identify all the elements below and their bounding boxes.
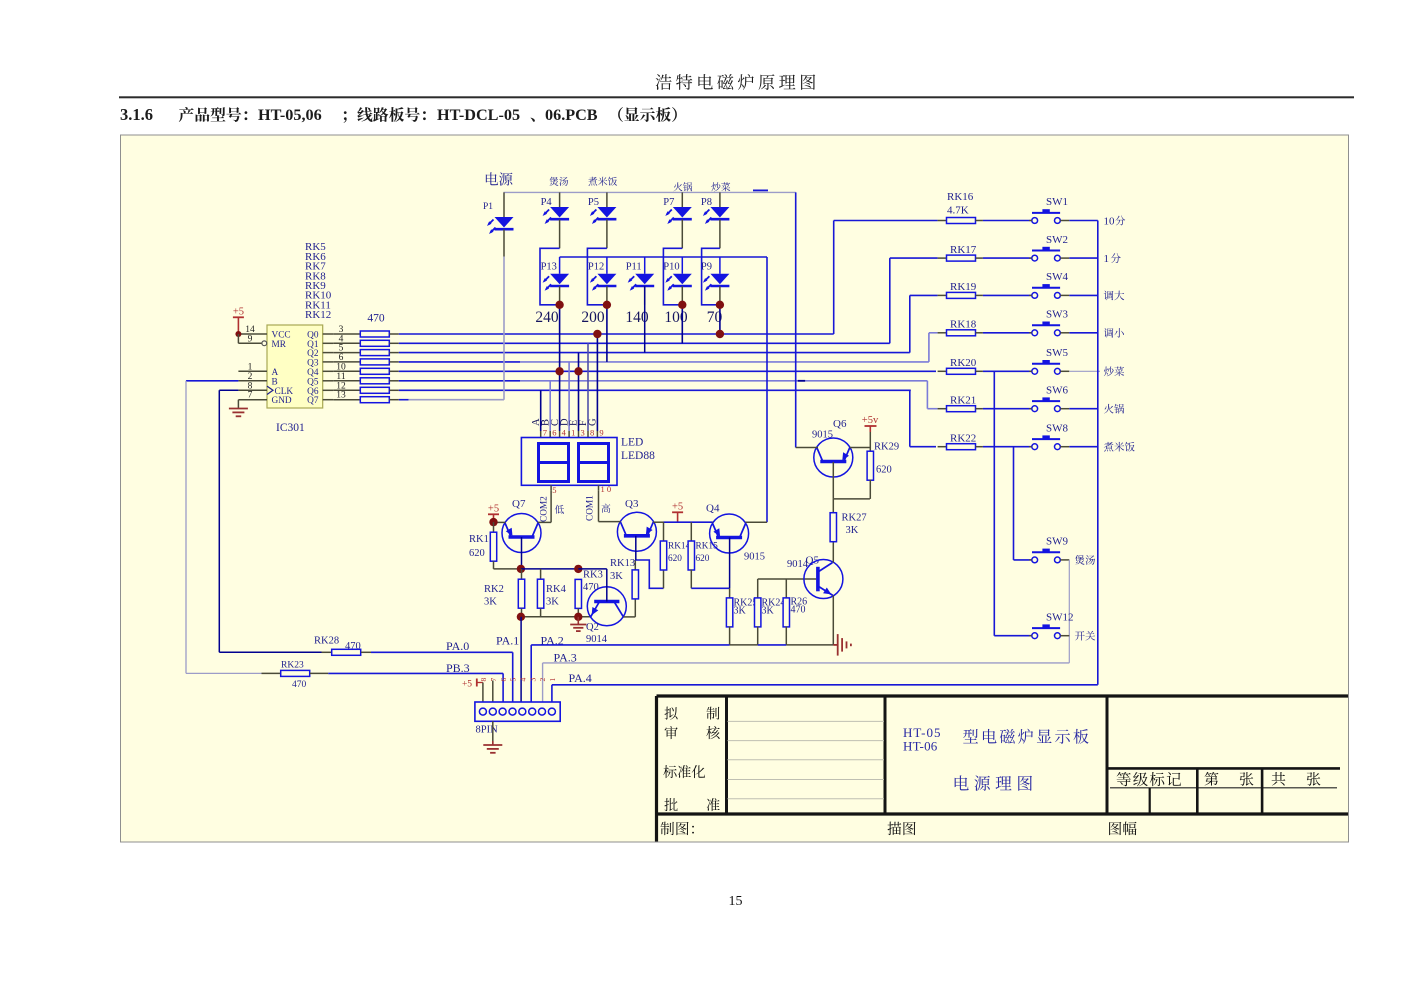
svg-text:RK14: RK14 <box>668 542 691 552</box>
svg-text:10: 10 <box>1104 215 1116 227</box>
wire COM2 <box>550 491 552 523</box>
junction row Q0 x P9 <box>716 330 724 338</box>
svg-text:SW9: SW9 <box>1046 536 1069 548</box>
wire PA.1 column <box>520 617 522 702</box>
junction P9 node 70 <box>716 301 724 309</box>
svg-text:RK18: RK18 <box>950 319 977 331</box>
wire RK13 to RK14 s-path <box>635 560 663 588</box>
svg-text:6: 6 <box>499 678 508 682</box>
wire RK17 to SW2 <box>983 257 1032 259</box>
svg-text:RK1: RK1 <box>469 534 489 545</box>
svg-text:4: 4 <box>519 678 528 682</box>
svg-text:P12: P12 <box>588 262 604 273</box>
ground at connector <box>492 721 494 745</box>
display U LED88 body <box>521 438 617 486</box>
junction PA1 bottom node <box>517 613 525 621</box>
junction RK3 bottom node <box>574 613 582 621</box>
wire segment E drop <box>578 353 580 431</box>
svg-text:2: 2 <box>538 678 547 682</box>
wire SW2 to rail <box>1069 257 1098 259</box>
title block label 制图 <box>660 822 693 835</box>
svg-text:1: 1 <box>248 362 253 372</box>
wire Q2 base <box>606 569 608 602</box>
svg-text:P11: P11 <box>626 262 642 273</box>
svg-text:P7: P7 <box>663 197 674 208</box>
title block divider sign/title <box>884 696 887 814</box>
title block label 等级标记 <box>1117 772 1181 786</box>
title block 型电磁炉显示板 <box>963 729 1089 744</box>
junction +5 Q7 node <box>489 518 497 526</box>
title block label 拟制 <box>664 707 677 720</box>
net label 电源 <box>486 172 513 185</box>
title block subtable divider 3 <box>1149 788 1151 814</box>
svg-text:1: 1 <box>548 678 557 682</box>
connector pin stubs <box>482 683 484 703</box>
svg-text:15: 15 <box>729 894 743 909</box>
wire segment C drop <box>559 371 561 431</box>
svg-text:1: 1 <box>1104 253 1110 265</box>
wire bus row Q1 <box>399 342 890 344</box>
svg-text:A: A <box>272 368 279 378</box>
title block subtable underline <box>1110 787 1337 789</box>
title block label 批准 <box>664 798 677 811</box>
IC301 left pins VCC MR A B CLK GND <box>238 333 267 335</box>
svg-text:RK16: RK16 <box>947 191 974 203</box>
wire Q5 riser to RK21 <box>926 381 928 409</box>
svg-text:620: 620 <box>668 554 682 564</box>
svg-text:5: 5 <box>552 485 556 495</box>
svg-text:3: 3 <box>528 678 537 682</box>
wire Q1 riser to RK17 <box>889 258 891 343</box>
svg-text:P1: P1 <box>483 202 493 212</box>
wire VCC to MR vertical <box>237 334 239 343</box>
svg-text:RK21: RK21 <box>950 394 976 406</box>
svg-text:GND: GND <box>272 396 292 406</box>
svg-text:Q4: Q4 <box>706 503 720 515</box>
svg-text:PB.3: PB.3 <box>446 661 470 675</box>
wire bypass at x=559 <box>540 248 560 304</box>
svg-text:RK27: RK27 <box>842 513 867 524</box>
wire Q4 emitter from rail <box>712 521 715 523</box>
svg-text:SW8: SW8 <box>1046 422 1069 434</box>
ground at IC301 GND pin <box>237 400 239 409</box>
svg-text:+5: +5 <box>233 307 244 318</box>
wire bus row Q6 <box>399 389 911 391</box>
transistor Q2 <box>587 587 626 626</box>
title block label 标准化 <box>663 765 705 778</box>
wire SW8 tee down to SW9 <box>1013 447 1015 560</box>
wire PA.3 row <box>543 662 1070 664</box>
wire +5 mid stem <box>677 512 679 522</box>
wire SW4 to rail <box>1069 294 1098 296</box>
svg-text:3: 3 <box>581 428 585 438</box>
junction P13 node 240 <box>555 301 563 309</box>
LED P4 <box>549 177 568 186</box>
schematic sheet background <box>121 135 1349 842</box>
wire bus row Q7 pale to P1 <box>409 399 504 401</box>
LED P8 <box>711 182 730 191</box>
resistor array element row 8 <box>333 399 360 401</box>
wire bus row Q3 <box>399 361 520 363</box>
svg-text:Q7: Q7 <box>307 396 319 406</box>
net label 调小 <box>1104 328 1124 338</box>
document title 浩特电磁炉原理图 <box>656 74 816 90</box>
wire RK22 to SW8 <box>983 446 1032 448</box>
svg-text:HT-05,06: HT-05,06 <box>258 106 322 124</box>
title block label 图幅 <box>1109 822 1136 835</box>
svg-text:8: 8 <box>590 428 594 438</box>
svg-text:HT-06: HT-06 <box>903 739 938 754</box>
svg-text:+5: +5 <box>672 502 683 513</box>
svg-text:PA.1: PA.1 <box>496 634 519 648</box>
svg-text:COM1: COM1 <box>586 495 596 521</box>
wire Q4 collector to riser <box>746 521 768 523</box>
display pin 10 stub <box>598 485 600 490</box>
svg-text:LED: LED <box>621 437 643 449</box>
net label COM2 <box>549 521 551 523</box>
wire RK20 to SW5 <box>983 370 1032 372</box>
display pin 5 stub <box>550 485 552 490</box>
wire Q2 collector <box>623 616 635 618</box>
wire bus row Q0 <box>399 333 834 335</box>
svg-text:PA.4: PA.4 <box>569 671 592 685</box>
wire bus row Q4 <box>399 370 936 372</box>
svg-text:P13: P13 <box>541 262 557 273</box>
svg-text:3K: 3K <box>546 597 559 608</box>
title block outer bottom <box>657 812 1349 815</box>
svg-text:SW12: SW12 <box>1046 611 1074 623</box>
svg-text:RK22: RK22 <box>950 432 976 444</box>
title block outer top <box>657 694 1349 697</box>
wire SW8 to rail <box>1069 446 1098 448</box>
title block subtable divider 2 <box>1261 768 1264 814</box>
wire RK16 to SW1 <box>983 220 1032 222</box>
svg-text:RK4: RK4 <box>546 584 567 595</box>
svg-text:SW2: SW2 <box>1046 234 1068 246</box>
svg-text:+5: +5 <box>488 504 499 515</box>
svg-text:SW1: SW1 <box>1046 196 1068 208</box>
title block subtable divider 1 <box>1196 768 1199 814</box>
wire rail riser to Q6 base <box>795 192 797 447</box>
IC301 MR inversion bubble <box>262 341 267 346</box>
wire Q6 riser to RK22 <box>909 390 911 446</box>
svg-text:2: 2 <box>248 372 253 382</box>
wire SW9 pale drop <box>1068 560 1070 663</box>
resistor array element row 4 <box>333 361 360 363</box>
wire P9 column to bus <box>719 305 721 334</box>
svg-text:3K: 3K <box>484 597 497 608</box>
svg-text:240: 240 <box>535 309 559 326</box>
svg-text:RK3: RK3 <box>583 570 603 581</box>
svg-text:7: 7 <box>248 391 253 401</box>
wire Q6 emitter to +5v <box>850 447 870 449</box>
svg-text:IC301: IC301 <box>276 422 305 434</box>
wire LED anode rail second row <box>560 256 767 258</box>
svg-text:06.PCB: 06.PCB <box>545 106 598 124</box>
wire RK3top to Q2 base <box>578 568 607 570</box>
svg-text:9: 9 <box>248 334 253 344</box>
wire P11 column to bus <box>644 286 646 352</box>
wire Q5 emitter down <box>832 595 834 645</box>
junction P10 node 100 <box>678 301 686 309</box>
svg-text:G: G <box>588 418 599 426</box>
wire Q6 collector <box>832 462 834 499</box>
wire P12 column to bus <box>606 305 608 362</box>
svg-text:Q4: Q4 <box>307 368 319 378</box>
wire segment G drop <box>596 334 598 431</box>
resistor array element row 5 <box>333 370 360 372</box>
svg-text:3K: 3K <box>610 571 623 582</box>
connector pins circles <box>479 708 486 715</box>
wire Q3 riser to RK18 <box>928 333 930 362</box>
svg-text:470: 470 <box>583 582 599 593</box>
junction row Q0 G <box>593 330 601 338</box>
net label 煮米饭 <box>1104 442 1135 452</box>
wire RK21 to SW6 <box>983 408 1032 410</box>
net label 开关 <box>1075 631 1095 641</box>
svg-text:RK29: RK29 <box>874 442 899 453</box>
IC301 CLK wedge <box>267 386 273 394</box>
svg-text:7: 7 <box>543 428 547 438</box>
svg-text:PA.0: PA.0 <box>446 639 469 653</box>
wire bypass at x=719 <box>702 248 720 304</box>
wire RK23 to pin3 <box>328 672 503 674</box>
resistor array element row 2 <box>333 342 360 344</box>
svg-text:RK23: RK23 <box>281 661 304 671</box>
svg-text:LED88: LED88 <box>621 450 655 462</box>
title block label 共张 <box>1272 772 1286 786</box>
title block left edge <box>655 696 658 842</box>
wire blue dash above rail <box>753 189 768 191</box>
svg-text:Q3: Q3 <box>625 498 639 510</box>
svg-text:Q7: Q7 <box>512 498 526 510</box>
wire +5 stem to VCC <box>237 317 239 334</box>
resistor array element row 7 <box>333 389 360 391</box>
wire RK19 to SW4 <box>983 294 1032 296</box>
svg-text:RK19: RK19 <box>950 281 977 293</box>
wire bottom tie row <box>521 616 591 618</box>
wire PA.2 row <box>531 644 729 646</box>
svg-text:P5: P5 <box>588 197 599 208</box>
junction VCC node <box>235 331 241 337</box>
junction P12 node 200 <box>603 301 611 309</box>
svg-text:SW5: SW5 <box>1046 347 1069 359</box>
wire RK1 to Q7 base <box>494 568 521 570</box>
svg-text:3K: 3K <box>762 606 775 617</box>
svg-text:COM2: COM2 <box>540 496 550 522</box>
svg-text:RK20: RK20 <box>950 357 977 369</box>
resistor array element row 6 <box>333 380 360 382</box>
svg-text:Q2: Q2 <box>586 622 599 633</box>
title block signature rules <box>728 720 885 722</box>
title block label 描图 <box>888 822 916 836</box>
svg-text:8PIN: 8PIN <box>476 725 499 736</box>
junction row Q4 C <box>555 367 563 375</box>
wire Q0 riser to RK16 <box>833 221 835 335</box>
wire segment B drop <box>549 381 551 431</box>
wire RK28 to pin4 <box>371 651 513 653</box>
wire SW3 to rail <box>1069 332 1098 334</box>
LED P7 <box>673 182 692 191</box>
title block 电源理图 <box>955 775 1032 790</box>
wire COM1 <box>598 491 600 522</box>
wire Q6 base <box>796 447 818 449</box>
connector J 8PIN body <box>475 702 560 721</box>
wire Q3 emitter to +5 rail <box>653 521 663 523</box>
wire PA.4 row <box>552 684 1098 686</box>
wire Q3 base down <box>635 536 637 560</box>
wire bypass at x=682 <box>663 248 682 304</box>
title block label 第张 <box>1205 772 1219 786</box>
svg-text:620: 620 <box>876 465 892 476</box>
wire P10 column to bus <box>681 305 683 344</box>
wire segment F drop <box>587 343 589 431</box>
wire Q7 base down <box>521 537 523 569</box>
svg-text:470: 470 <box>791 605 806 616</box>
net label 调大 <box>1104 291 1124 301</box>
IC U IC301 body <box>267 325 323 408</box>
wire IC CLK to PA0 <box>219 389 238 391</box>
svg-text:B: B <box>272 377 278 387</box>
wire Q2 riser to RK19 <box>909 295 911 352</box>
svg-text:9014: 9014 <box>586 634 608 645</box>
wire Q3 collector to COM1 <box>618 521 621 523</box>
svg-text:3K: 3K <box>734 606 747 617</box>
svg-text:RK28: RK28 <box>314 636 339 647</box>
svg-text:3K: 3K <box>846 525 859 536</box>
resistor array element row 3 <box>333 352 360 354</box>
svg-text:5: 5 <box>509 678 518 682</box>
svg-text:P9: P9 <box>701 262 712 273</box>
svg-text:9015: 9015 <box>744 552 765 563</box>
wire bus row Q5 <box>399 380 520 382</box>
junction RK3 top node <box>574 565 582 573</box>
svg-text:Q5: Q5 <box>307 377 319 387</box>
svg-text:+5v: +5v <box>862 415 879 426</box>
svg-text:P4: P4 <box>541 197 553 208</box>
wire SW6 to rail <box>1069 408 1098 410</box>
svg-text:3.1.6: 3.1.6 <box>120 105 153 124</box>
svg-text:SW3: SW3 <box>1046 309 1069 321</box>
wire Q5 collector <box>832 541 834 563</box>
svg-text:4.7K: 4.7K <box>947 205 969 217</box>
net label 火锅 <box>1104 404 1124 414</box>
svg-text:SW6: SW6 <box>1046 384 1069 396</box>
title underline <box>119 96 1354 98</box>
wire IC B pin to PB3 <box>186 380 238 382</box>
svg-text:470: 470 <box>367 313 385 325</box>
wire RK18 to SW3 <box>983 332 1032 334</box>
wire Q7 collector to COM2 <box>538 521 539 523</box>
svg-text:9: 9 <box>599 428 603 438</box>
svg-text:RK2: RK2 <box>484 584 504 595</box>
svg-text:MR: MR <box>272 340 287 350</box>
svg-text:P8: P8 <box>701 197 712 208</box>
wire P13 column to bus <box>559 305 561 372</box>
svg-text:P10: P10 <box>663 262 679 273</box>
wire segment D drop <box>568 362 570 431</box>
svg-text:470: 470 <box>292 680 307 690</box>
resistor array element row 1 <box>333 333 360 335</box>
wire bus row Q2 <box>399 352 910 354</box>
junction row Q4 E <box>574 367 582 375</box>
svg-text:RK13: RK13 <box>610 558 635 569</box>
ground at RK3 bottom <box>577 617 579 625</box>
ground at Q5 emitter <box>833 644 837 646</box>
wire SW5 pale <box>1069 370 1100 372</box>
wire Q5 base row <box>758 578 817 580</box>
svg-text:RK17: RK17 <box>950 244 977 256</box>
wire +5 rail <box>664 521 713 523</box>
wire +5 to Q7 emitter <box>493 514 495 522</box>
LED P5 <box>588 177 617 186</box>
net label 炒菜 <box>1104 366 1124 376</box>
svg-text:100: 100 <box>664 309 688 326</box>
wire PB3 row <box>186 672 262 674</box>
title block divider labels/sign <box>725 696 728 814</box>
title block label 审核 <box>665 726 678 739</box>
svg-text:6: 6 <box>552 428 556 438</box>
display digit 1 <box>539 444 569 482</box>
wire Q4 base down <box>729 538 731 589</box>
svg-text:620: 620 <box>696 554 710 564</box>
wire SW1 to rail <box>1069 220 1098 222</box>
wire segment A drop <box>540 390 542 431</box>
wire right rail <box>1097 221 1099 685</box>
svg-text:RK12: RK12 <box>305 309 331 321</box>
wire Q7 emitter <box>494 521 506 523</box>
wire row Q5 dash <box>798 380 805 382</box>
svg-text:1 0: 1 0 <box>601 484 612 494</box>
svg-text:1: 1 <box>571 428 575 438</box>
svg-text:+5: +5 <box>462 680 472 690</box>
wire bus row Q7 stub <box>399 399 409 401</box>
svg-text:HT-DCL-05: HT-DCL-05 <box>437 106 520 124</box>
wire bypass at x=606 <box>587 248 607 304</box>
wire LED anode rail top <box>504 191 796 193</box>
svg-text:Q6: Q6 <box>833 418 847 430</box>
title block divider title/right <box>1106 696 1109 814</box>
svg-text:200: 200 <box>581 309 605 326</box>
wire base row to RK3 <box>521 568 578 570</box>
svg-text:4: 4 <box>562 428 567 438</box>
junction Q7 base node <box>517 565 525 573</box>
display digit 2 <box>579 444 609 482</box>
wire RK15 to Q4 base <box>691 587 729 589</box>
wire RK20 tee down to SW12 <box>993 371 995 635</box>
svg-text:8: 8 <box>479 678 488 682</box>
svg-text:SW4: SW4 <box>1046 271 1069 283</box>
net label 煲汤 <box>1075 555 1095 565</box>
title block subtable top <box>1107 767 1340 770</box>
svg-text:620: 620 <box>469 548 485 559</box>
